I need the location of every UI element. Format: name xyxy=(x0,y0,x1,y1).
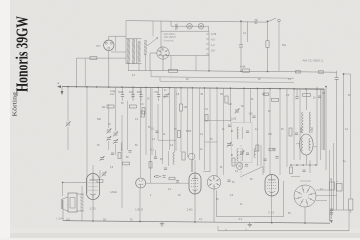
wire x162 xyxy=(162,88,164,164)
resistor x226 xyxy=(225,96,228,103)
wire x127b xyxy=(127,101,129,150)
capacitor C ant4 xyxy=(154,87,160,101)
small socket below IF xyxy=(236,163,243,170)
OT winding label 7000 xyxy=(310,127,314,133)
wire x287 xyxy=(286,89,288,167)
tube V1 UCH xyxy=(87,174,100,200)
chassis bus bottom xyxy=(218,210,349,231)
svg-text:0,45: 0,45 xyxy=(211,32,217,36)
svg-text:6,3: 6,3 xyxy=(239,217,243,221)
svg-text:0,9: 0,9 xyxy=(211,49,215,53)
wire E-line xyxy=(76,57,126,59)
bottom junctions xyxy=(92,220,306,224)
wire dropper x279 xyxy=(279,21,287,71)
selector box bottom leads xyxy=(171,56,196,71)
capacitor d1 xyxy=(154,176,161,178)
RC network right mid xyxy=(289,128,298,136)
wire left bottom corner xyxy=(62,200,64,221)
wire x122ext xyxy=(121,115,123,208)
wires H1 to coils xyxy=(126,21,153,39)
wire x204 xyxy=(204,88,206,170)
scale lamp line xyxy=(171,21,209,31)
capacitor beside socket xyxy=(227,180,235,184)
wire x192 xyxy=(191,88,193,172)
resistor d3 xyxy=(169,177,175,180)
wire jack to main bus xyxy=(108,51,110,87)
junction dots on main bus xyxy=(67,86,318,90)
wire x257 xyxy=(256,88,258,166)
mains switch and terminal xyxy=(267,18,281,22)
osc coil mid xyxy=(173,150,175,164)
resistor 10k left xyxy=(102,105,115,109)
svg-text:4,9kΩ: 4,9kΩ xyxy=(110,190,117,194)
wire x326 xyxy=(325,86,327,170)
svg-text:50μ: 50μ xyxy=(282,44,287,47)
tuning cap section 2 xyxy=(113,87,118,155)
label under speaker xyxy=(57,218,65,220)
svg-text:Umschalt.: Umschalt. xyxy=(164,40,175,43)
wire jack to ant coil xyxy=(109,36,126,40)
rectifier tube socket U1 xyxy=(157,47,169,59)
svg-text:0,1: 0,1 xyxy=(151,149,155,152)
wire x333 xyxy=(333,143,335,210)
wire stub x248 xyxy=(247,21,249,42)
title maker Körting (rotated) xyxy=(11,91,18,116)
svg-text:Honoris 39GW: Honoris 39GW xyxy=(13,16,32,92)
wire link y140 left xyxy=(158,139,176,141)
svg-text:AW CD 350/1,2: AW CD 350/1,2 xyxy=(303,59,324,63)
resistor out1 xyxy=(290,167,293,174)
resistor band a xyxy=(123,162,130,165)
diode circle xyxy=(188,153,195,172)
wire x199 xyxy=(198,88,200,160)
coupling network above V4 xyxy=(263,148,278,160)
wire link y120 xyxy=(205,119,232,121)
capacitor out1 xyxy=(302,170,305,172)
wire x250 xyxy=(250,88,252,122)
tube V3 UBF xyxy=(189,173,201,194)
resistor mid2 xyxy=(182,152,185,160)
capacitor vol xyxy=(245,165,248,167)
wire selector to H2 bus xyxy=(208,56,210,72)
wire x217 xyxy=(216,88,218,177)
variometer arrow xyxy=(147,37,158,46)
heater bus bottom xyxy=(63,221,330,224)
antenna transformer windings xyxy=(126,39,142,64)
wire x140 xyxy=(140,87,142,177)
resistor below row xyxy=(141,111,144,117)
tube top leads xyxy=(93,160,195,174)
capacitor d4 xyxy=(176,181,179,183)
osc coil winding xyxy=(144,40,147,56)
wire into socket top xyxy=(203,170,210,172)
svg-text:125 150V=: 125 150V= xyxy=(164,35,177,39)
svg-text:1M: 1M xyxy=(184,105,188,109)
svg-text:0,1: 0,1 xyxy=(243,32,247,35)
svg-text:100: 100 xyxy=(249,113,254,116)
wire x168b xyxy=(168,151,170,166)
OT leads xyxy=(305,89,307,165)
wire bus H2 xyxy=(128,70,337,72)
wire x322 xyxy=(321,89,323,150)
svg-text:5000: 5000 xyxy=(186,131,192,133)
capacitor 0.1 mid xyxy=(151,149,158,159)
wire x169 xyxy=(169,88,171,150)
capacitor d2 xyxy=(162,176,165,178)
wire x181b xyxy=(180,111,182,152)
svg-text:1,2: 1,2 xyxy=(211,43,215,47)
wire x270 xyxy=(269,89,271,175)
label 6.3 xyxy=(239,217,243,221)
wire x263x xyxy=(262,167,264,176)
wire OT box top/right xyxy=(294,89,324,150)
tuning cap section 1 xyxy=(106,104,111,150)
resistor 1M row xyxy=(129,103,143,108)
resistor 1M mid xyxy=(179,104,187,111)
electrolytic C-el2 xyxy=(336,180,342,191)
resistor x206 xyxy=(205,115,208,122)
svg-text:100: 100 xyxy=(66,219,71,222)
svg-text:1,4Ω: 1,4Ω xyxy=(187,208,193,212)
wire bus H3b xyxy=(160,77,294,83)
voltage selector box xyxy=(161,31,209,55)
wire x280 xyxy=(279,89,281,175)
resistor on H2 xyxy=(169,69,178,72)
capacitor right1 xyxy=(295,89,298,98)
svg-text:4,8k: 4,8k xyxy=(240,65,246,69)
wire x152 xyxy=(151,87,153,155)
choke on terminal branch xyxy=(255,19,258,24)
grid network V1 xyxy=(97,170,107,182)
jack label xyxy=(96,44,101,48)
resistor small H2a xyxy=(296,71,301,73)
resistor on dropper x267 xyxy=(266,20,269,72)
capacitor band b xyxy=(128,151,131,153)
heater bus labels xyxy=(66,218,203,222)
wire x174 xyxy=(174,88,176,150)
resistor R-ant xyxy=(90,57,97,60)
wire x294 xyxy=(293,89,295,160)
junction row y165 xyxy=(290,164,317,166)
jack side wires xyxy=(111,36,126,52)
electrolytic C-el1 xyxy=(329,179,334,191)
bleeder resistor right xyxy=(349,168,353,213)
wire x158b xyxy=(157,104,159,140)
dial lamp 2 xyxy=(198,23,204,29)
OT side taps xyxy=(296,144,317,147)
V5 socket stubs xyxy=(316,190,337,201)
capacitor 0.1 on dropper x241 xyxy=(239,20,247,72)
wire x230 xyxy=(229,88,231,122)
wire top supply line xyxy=(126,21,267,22)
loudspeaker xyxy=(61,193,84,212)
svg-text:L30 D: L30 D xyxy=(136,208,143,212)
trimmer osc2 xyxy=(239,150,244,155)
wire U-link volume xyxy=(217,181,284,217)
speaker lead bottom xyxy=(81,211,83,221)
label 4.9k xyxy=(110,190,117,194)
mechanical link dashed xyxy=(240,145,242,175)
wire x310b xyxy=(309,160,311,173)
wire x320 xyxy=(319,89,321,160)
svg-text:5000: 5000 xyxy=(118,92,124,94)
capacitor IF1 xyxy=(249,113,256,118)
OT secondary windings xyxy=(301,139,310,151)
note AW CD 350/1,2 xyxy=(303,59,324,63)
label 1.4ohm xyxy=(187,208,193,212)
capacitor band a xyxy=(111,153,114,155)
svg-text:kurz: kurz xyxy=(110,93,115,96)
wire bus H3 xyxy=(151,70,294,78)
svg-text:5000: 5000 xyxy=(137,92,143,94)
output transformer ellipse xyxy=(300,134,314,155)
wire x264 xyxy=(263,89,265,173)
dial lamp 1 xyxy=(187,23,193,29)
tube V2 indicator xyxy=(136,178,146,188)
coil bottom leads xyxy=(129,54,146,71)
resistor 4.8k on H2 xyxy=(240,65,250,73)
wire x261 xyxy=(260,145,262,166)
wire x244 xyxy=(243,88,245,122)
voltage tap labels xyxy=(211,32,217,53)
resistor x143 xyxy=(142,108,145,115)
tube V4 UCL xyxy=(265,175,279,197)
wire x300 xyxy=(299,89,301,160)
wire x87 xyxy=(86,87,88,193)
label L30D xyxy=(136,208,143,212)
svg-text:1M: 1M xyxy=(140,103,143,106)
wire x350 xyxy=(344,74,351,168)
wire link y142 xyxy=(205,141,218,143)
main grid bus H4 xyxy=(62,87,324,90)
resistor x179 xyxy=(178,131,181,138)
decoupling capacitor right top xyxy=(335,71,339,210)
capacitor x165b xyxy=(164,168,167,170)
earth terminal xyxy=(61,87,64,95)
lead V5 xyxy=(304,207,306,223)
label C43 xyxy=(268,211,274,215)
svg-text:5Ω: 5Ω xyxy=(103,219,106,222)
rectifier leads xyxy=(150,53,163,71)
wire x187 xyxy=(187,88,189,157)
ground g1 xyxy=(160,222,164,226)
lead socket mid xyxy=(213,189,215,222)
trimmer T-a xyxy=(65,87,70,150)
tube socket mid xyxy=(207,176,221,190)
resistor x257 mid xyxy=(256,145,259,151)
svg-text:cpv: cpv xyxy=(96,44,101,48)
resistor right0 xyxy=(264,93,269,95)
lead V1 cathode xyxy=(92,200,94,221)
wire x331 arrow xyxy=(330,178,333,223)
schematic soft-scan group xyxy=(57,18,353,231)
trimmer band a xyxy=(99,156,104,161)
wire x150 xyxy=(149,87,151,183)
resistor vol xyxy=(232,158,235,166)
resistor band b xyxy=(118,153,121,159)
switch arm diagonal xyxy=(240,167,263,178)
resistor right1 xyxy=(272,98,279,101)
output tube socket V5 xyxy=(294,185,316,207)
svg-text:C 43: C 43 xyxy=(268,211,274,215)
speaker leads top xyxy=(62,182,87,196)
resistor right2 xyxy=(303,94,311,97)
coil osc2 xyxy=(254,149,255,158)
wire x343 xyxy=(343,73,345,210)
wire x85 xyxy=(84,58,86,87)
capacitor C ant2 xyxy=(129,87,135,101)
wire V2 to V3 xyxy=(146,182,189,184)
resistor x150b xyxy=(149,162,152,169)
wire x176 xyxy=(175,88,177,151)
lead V4 xyxy=(271,196,273,223)
value labels scatter xyxy=(97,75,351,215)
ground g2 xyxy=(248,222,252,226)
wire bottom-right link xyxy=(330,210,351,222)
wire x76 to bus xyxy=(75,58,77,87)
svg-text:220 240V~: 220 240V~ xyxy=(164,32,177,36)
trimmer IF1 xyxy=(234,105,244,114)
capacitor x157 xyxy=(151,128,159,133)
wire x329 xyxy=(329,150,331,222)
resistor small H2b xyxy=(319,71,324,73)
capacitor C ant3 xyxy=(137,87,143,101)
wire x181 xyxy=(180,88,182,104)
svg-text:2x25: 2x25 xyxy=(231,118,237,121)
trimmer on bus row xyxy=(163,93,169,98)
wire x223 xyxy=(223,88,225,175)
IF transformer xyxy=(226,118,252,163)
wire x146 xyxy=(145,87,147,155)
wire into selector box xyxy=(160,21,162,31)
label 1.7ohm xyxy=(90,207,96,211)
OT winding label 4000 xyxy=(299,127,303,133)
pickup jack socket xyxy=(104,40,114,50)
wire x210 xyxy=(209,88,211,172)
svg-text:1M: 1M xyxy=(220,94,223,96)
antenna terminal a xyxy=(57,81,61,88)
note möglichst kurz xyxy=(110,90,116,96)
wire x317 xyxy=(316,87,318,165)
lead V3 xyxy=(194,194,196,222)
capacitor right2 xyxy=(318,96,321,98)
svg-text:4,5: 4,5 xyxy=(211,38,215,42)
wires above V5 xyxy=(291,177,311,182)
svg-text:7000: 7000 xyxy=(310,127,314,133)
coil band a xyxy=(121,143,122,151)
capacitor C ant1 xyxy=(118,87,124,101)
OT primary windings xyxy=(302,112,311,133)
lead V2 xyxy=(139,189,141,222)
title model Honoris 39GW (rotated) xyxy=(13,16,32,92)
heater dropper resistor xyxy=(175,24,178,30)
svg-text:1,7Ω: 1,7Ω xyxy=(90,207,96,211)
wire x133 xyxy=(132,87,134,99)
capacitor right low xyxy=(330,209,333,214)
svg-text:Körting: Körting xyxy=(11,91,18,116)
